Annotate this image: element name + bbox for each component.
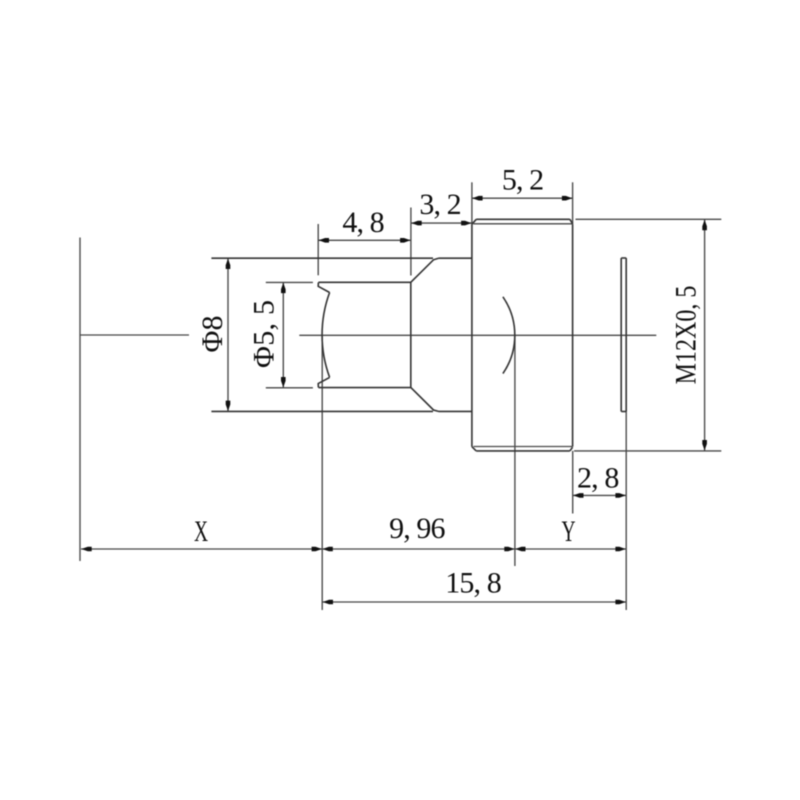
svg-text:9, 96: 9, 96 (389, 512, 445, 545)
svg-text:Φ8: Φ8 (196, 316, 229, 353)
svg-text:M12X0, 5: M12X0, 5 (670, 286, 703, 385)
svg-text:15, 8: 15, 8 (445, 567, 501, 600)
svg-text:3, 2: 3, 2 (419, 188, 461, 221)
svg-text:X: X (194, 515, 208, 548)
svg-text:5, 2: 5, 2 (502, 164, 544, 197)
svg-text:Y: Y (561, 515, 575, 548)
svg-text:Φ5, 5: Φ5, 5 (247, 300, 280, 368)
svg-text:2, 8: 2, 8 (577, 461, 619, 494)
svg-text:4, 8: 4, 8 (342, 206, 384, 239)
